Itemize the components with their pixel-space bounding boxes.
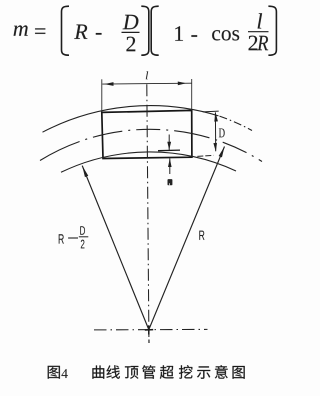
l dimension extension lines (101, 79, 103, 111)
pipe segment rectangle (102, 110, 192, 158)
label D (219, 128, 225, 137)
label R (199, 231, 204, 240)
caption 图4 曲线顶管超挖示意图 (48, 365, 245, 379)
m dimension (158, 149, 180, 152)
D dimension (203, 110, 219, 113)
radius line R-D/2 (82, 166, 149, 330)
radius line R (149, 147, 225, 330)
label m (168, 179, 173, 185)
vertical centerline (dash-dot) (147, 84, 149, 337)
inner bore arc (61, 152, 236, 172)
formula m = (R - D/2)(1 - cos l/2R) (14, 6, 277, 55)
l dimension line (102, 82, 191, 85)
label R - D/2 (59, 234, 64, 243)
label l (146, 71, 148, 79)
outer bore arc (43, 106, 219, 133)
pipe axis centerline arc (dash-dot) (40, 129, 262, 161)
center point blob (148, 326, 150, 335)
horizontal centerline (dash-dot) (94, 328, 208, 331)
